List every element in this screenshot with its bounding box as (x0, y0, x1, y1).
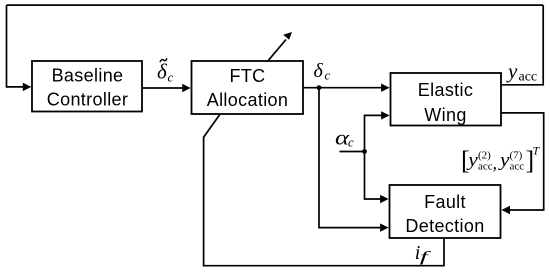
svg-text:c: c (168, 69, 174, 84)
svg-text:Wing: Wing (424, 105, 466, 125)
svg-text:c: c (325, 68, 331, 83)
wire y_acc: Elastic Wing output to top-right corner (501, 5, 543, 85)
svg-text:y: y (498, 150, 510, 171)
arrowhead into Fault Detection input 1 (380, 195, 389, 203)
svg-text:y: y (466, 150, 478, 171)
wire alpha_c down to Fault Detection input 1 (365, 152, 382, 200)
svg-text:FTC: FTC (229, 66, 265, 86)
block Fault Detection (390, 185, 501, 238)
arrowhead into FTC Allocation (182, 84, 191, 92)
arrowhead diagonal actuator arrow (283, 32, 292, 40)
svg-text:f: f (420, 249, 432, 265)
svg-text:Fault: Fault (424, 192, 466, 212)
label delta_c (FTC output) (314, 60, 331, 83)
node alpha_c junction dot (362, 149, 367, 154)
svg-text:Baseline: Baseline (52, 66, 124, 86)
svg-text:acc: acc (510, 161, 525, 173)
arrowhead into Fault Detection input 2 (380, 223, 389, 231)
wire i_f: Fault Detection bottom to FTC Allocation bottom (204, 115, 444, 266)
label i_f (415, 242, 432, 265)
svg-text:T: T (533, 144, 541, 158)
node delta_c junction dot (317, 85, 322, 90)
block FTC Allocation (192, 61, 304, 114)
wire FTC Allocation to Elastic Wing (delta_c) (303, 87, 382, 89)
wire alpha_c input stub (340, 151, 365, 153)
block Elastic Wing (391, 73, 502, 126)
wire diagonal actuator output from FTC Allocation top (268, 40, 286, 61)
svg-text:Allocation: Allocation (207, 90, 289, 110)
svg-text:acc: acc (519, 70, 538, 85)
svg-text:δ: δ (314, 60, 324, 82)
wire Baseline Controller to FTC Allocation (142, 87, 184, 89)
svg-text:Detection: Detection (405, 216, 484, 236)
wire delta_c branch down to Fault Detection input 2 (319, 88, 381, 228)
svg-text:,: , (493, 153, 498, 173)
arrowhead into Elastic Wing input 2 (381, 111, 390, 119)
wire feedback left down into Baseline Controller (7, 5, 25, 87)
svg-text:c: c (348, 135, 354, 149)
svg-text:y: y (506, 59, 518, 83)
svg-text:δ: δ (157, 60, 168, 84)
wire feedback top run (7, 4, 544, 6)
label delta_c tilde (between Baseline Controller and FTC Allocation) (157, 59, 174, 84)
svg-text:Controller: Controller (47, 89, 129, 109)
arrowhead into Fault Detection right side (502, 206, 511, 214)
label alpha_c (335, 126, 354, 150)
arrowhead into Elastic Wing input 1 (381, 84, 390, 92)
block Baseline Controller (32, 61, 142, 112)
wire Elastic Wing measurement output to Fault Detection right side (501, 113, 544, 210)
svg-text:acc: acc (478, 161, 493, 173)
wire alpha_c up to Elastic Wing input 2 (365, 115, 383, 151)
svg-text:Elastic: Elastic (418, 80, 473, 100)
label y_acc (506, 59, 537, 85)
label y_acc vector [y_acc^(2), y_acc^(7)]^T (461, 144, 541, 176)
arrowhead into Baseline Controller (23, 83, 32, 91)
